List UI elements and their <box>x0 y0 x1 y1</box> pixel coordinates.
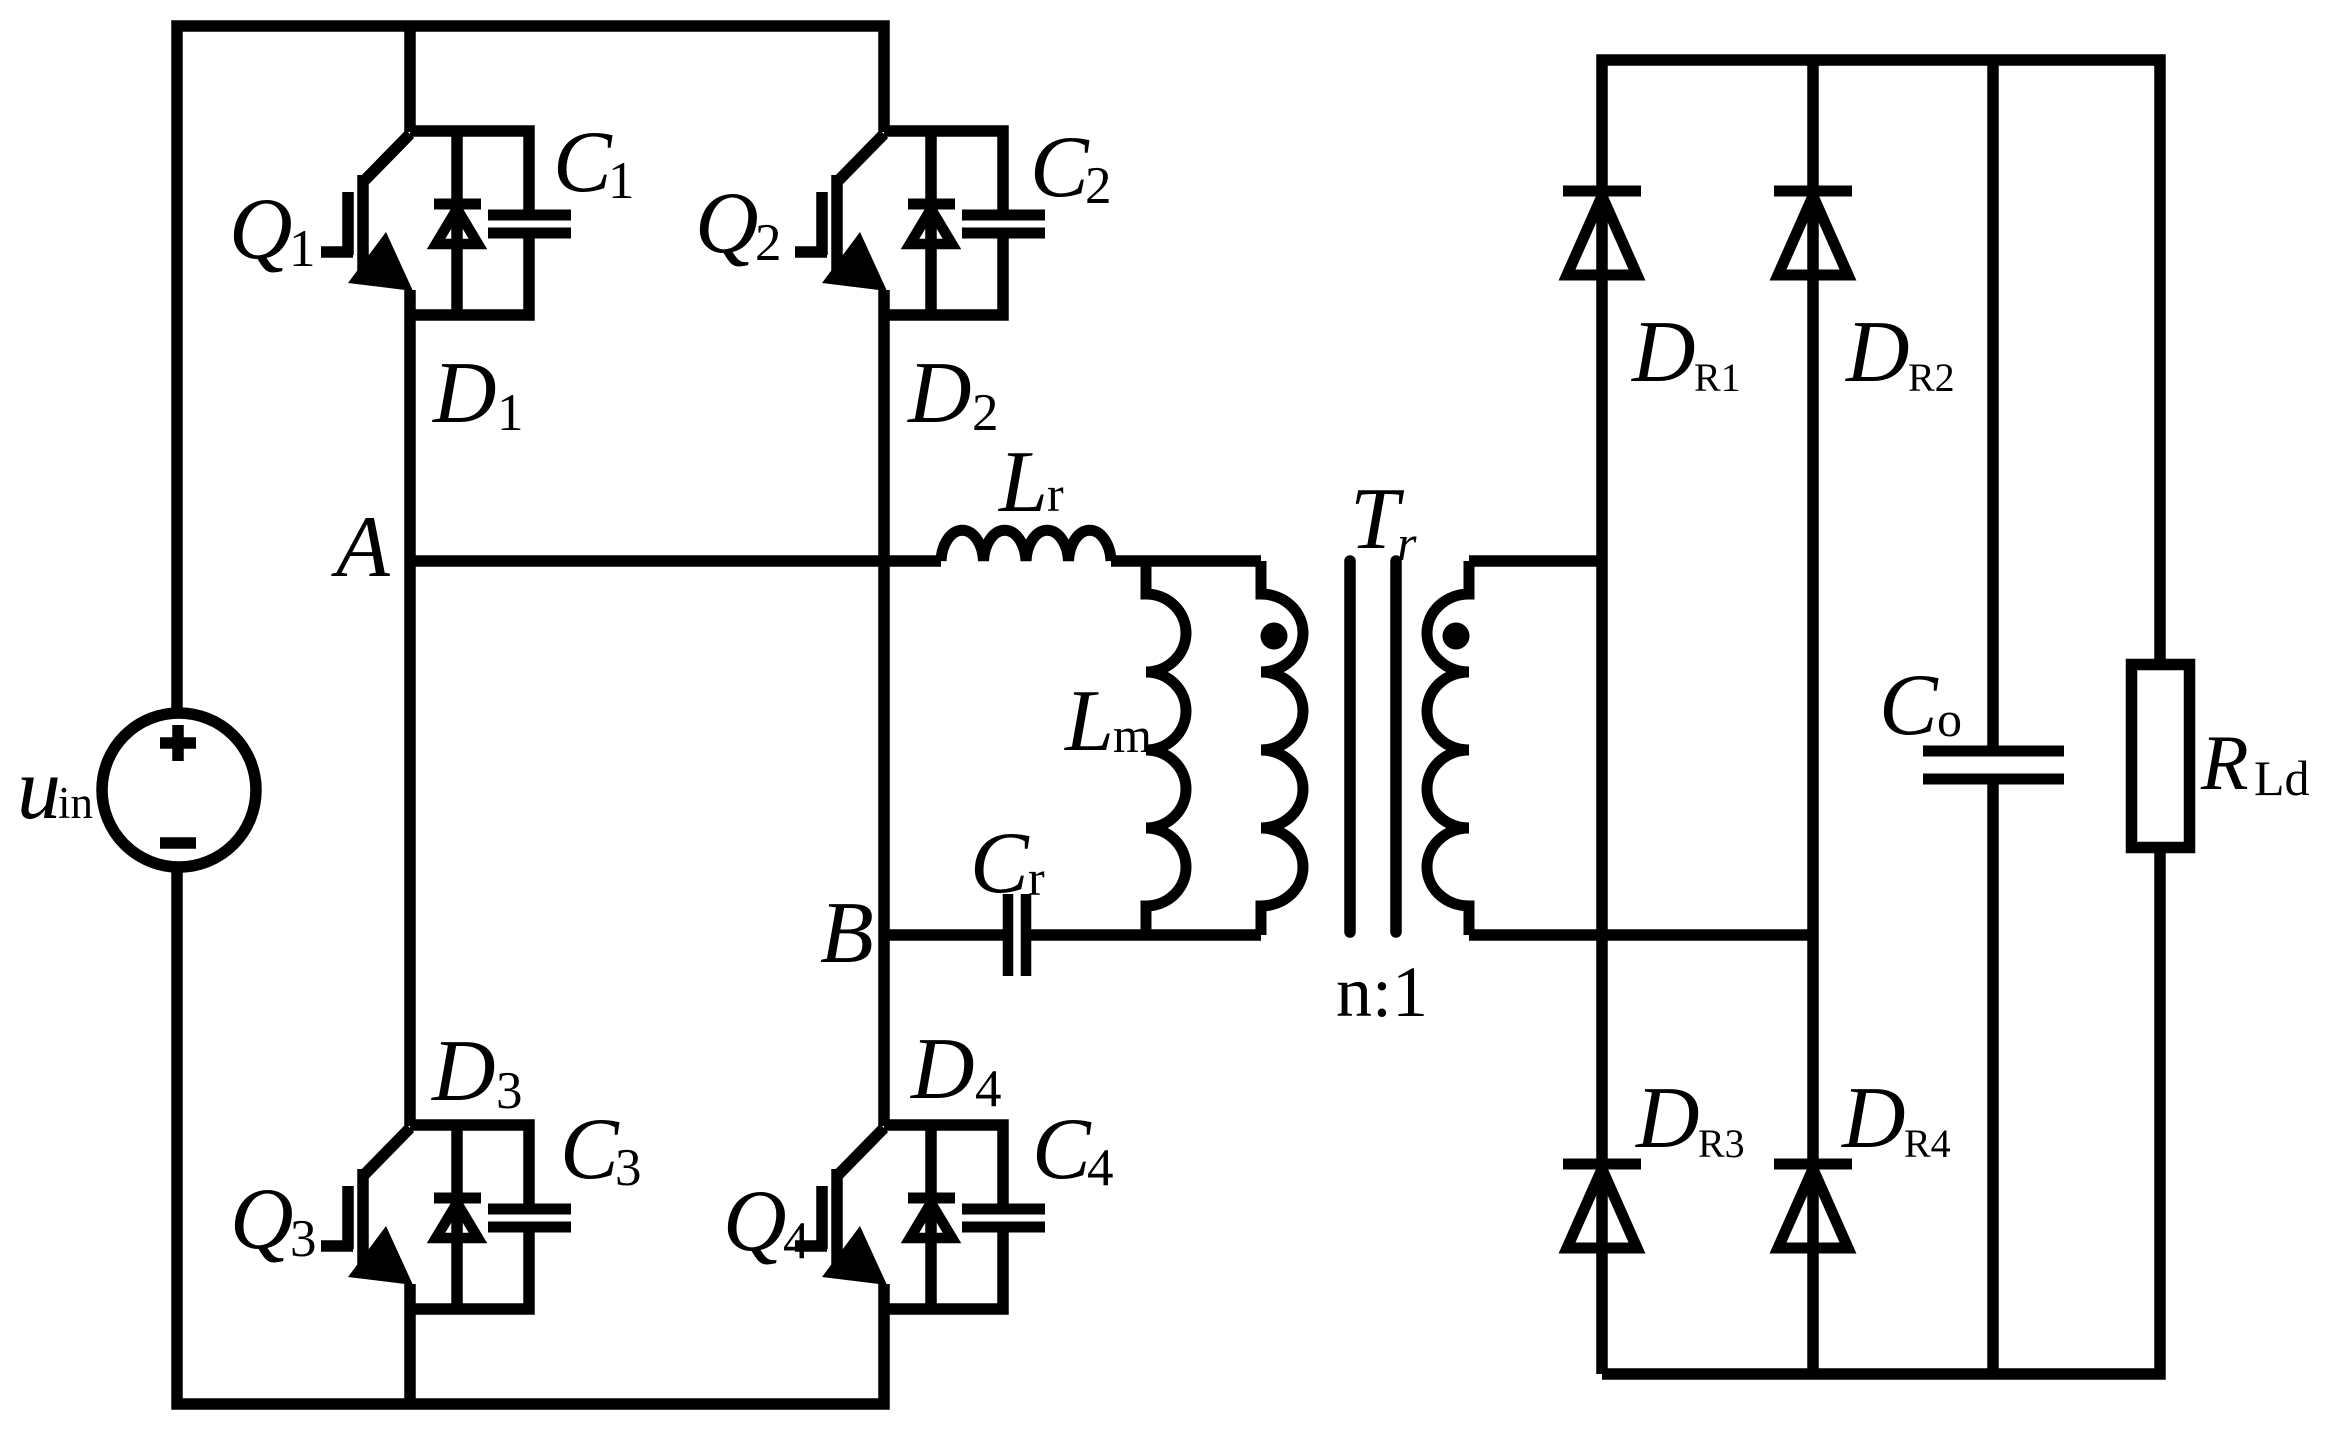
capacitor Co lower branch <box>1987 779 1999 1374</box>
transformer core left bar <box>1344 561 1356 932</box>
wire left rail upper + top wire + Q2 collector drop <box>177 26 884 713</box>
svg-text:D: D <box>431 1023 496 1120</box>
diode D1 triangle <box>436 209 478 244</box>
capacitor Cr left plate <box>1003 894 1014 976</box>
wire Cr to primary bottom <box>1030 929 1261 941</box>
wire right leg (node B) Q2 emitter to Q4 collector <box>878 290 890 1126</box>
capacitor C4 lower plate <box>962 1222 1045 1233</box>
transistor Q1 collector diagonal <box>364 134 410 181</box>
svg-text:2: 2 <box>755 214 782 272</box>
diode DR2 triangle <box>1778 196 1848 275</box>
voltage source minus sign <box>160 837 196 849</box>
transistor Q4 collector diagonal <box>838 1128 884 1175</box>
inductor Lr <box>941 530 1111 561</box>
svg-text:D: D <box>910 1021 975 1118</box>
transistor Q3 body bar <box>357 1169 369 1267</box>
capacitor C3 lower plate <box>488 1222 571 1233</box>
capacitor C2 upper plate <box>962 210 1045 221</box>
svg-text:2: 2 <box>972 384 999 442</box>
diode DR3 cathode bar <box>1563 1159 1641 1170</box>
svg-text:Ld: Ld <box>2254 750 2310 806</box>
capacitor C1 lower plate <box>488 228 571 239</box>
svg-text:Q: Q <box>723 1173 787 1270</box>
wire Lr to primary <box>1111 555 1261 567</box>
diode D1 cathode bar <box>434 199 481 210</box>
wire secondary bottom to rectifier <box>1469 929 1813 941</box>
svg-text:C: C <box>1030 119 1090 216</box>
wire Q1 collector leg <box>404 26 416 132</box>
transistor Q3 gate bar <box>342 1186 354 1249</box>
wire node A to Lr <box>410 555 941 567</box>
wire node B to Cr <box>884 929 1004 941</box>
svg-text:Q: Q <box>695 175 759 272</box>
wire Q4 cell top bar + capacitor upper branch <box>884 1125 1003 1209</box>
transistor Q1 body bar <box>357 175 369 273</box>
transistor Q3 collector diagonal <box>364 1128 410 1175</box>
svg-text:Q: Q <box>230 1171 294 1268</box>
svg-text:D: D <box>1845 304 1910 401</box>
transistor Q2 emitter arrow <box>822 232 887 291</box>
inductor Lm <box>1146 561 1186 935</box>
svg-text:R: R <box>2200 719 2249 806</box>
diode D4 triangle <box>910 1203 952 1238</box>
svg-text:4: 4 <box>1087 1139 1114 1197</box>
transistor Q3 emitter arrow <box>348 1226 413 1285</box>
svg-text:B: B <box>820 885 874 982</box>
svg-text:D: D <box>1635 1070 1700 1167</box>
svg-text:D: D <box>1841 1070 1906 1167</box>
svg-text:r: r <box>1047 466 1064 522</box>
svg-text:C: C <box>553 114 613 211</box>
wire DR2/DR4 leg <box>1807 60 1819 1374</box>
transformer secondary dot <box>1443 623 1470 650</box>
transformer primary winding <box>1261 561 1303 935</box>
diode D3 branch wire <box>451 1129 463 1309</box>
transistor Q3 gate lead <box>321 1240 353 1252</box>
wire Q4 cell bottom bar + capacitor lower branch <box>884 1227 1003 1309</box>
capacitor Cr right plate <box>1021 894 1032 976</box>
wire Q2 cell top bar + capacitor upper branch <box>884 131 1003 215</box>
capacitor C3 upper plate <box>488 1204 571 1215</box>
svg-text:in: in <box>58 778 93 828</box>
wire DR1/DR3 leg + top rail + RLd top lead <box>1602 60 2160 1374</box>
transformer core right bar <box>1390 561 1402 932</box>
voltage source u_in circle <box>102 713 256 867</box>
capacitor Co upper plate <box>1923 746 2064 757</box>
transformer primary dot <box>1261 623 1288 650</box>
svg-text:m: m <box>1113 707 1152 763</box>
diode D2 branch wire <box>925 135 937 315</box>
svg-text:n:1: n:1 <box>1336 952 1428 1032</box>
diode D1 branch wire <box>451 135 463 315</box>
svg-text:R4: R4 <box>1904 1121 1951 1166</box>
svg-text:C: C <box>970 815 1030 912</box>
svg-text:Q: Q <box>229 181 293 278</box>
wire bottom rail + RLd bottom lead <box>1602 848 2160 1374</box>
transistor Q4 body bar <box>831 1169 843 1267</box>
svg-text:1: 1 <box>608 152 635 210</box>
wire Q1 cell top bar + capacitor upper branch <box>410 131 529 215</box>
svg-text:1: 1 <box>289 220 316 278</box>
capacitor Co lower plate <box>1923 774 2064 785</box>
svg-text:C: C <box>560 1101 620 1198</box>
diode DR1 triangle <box>1567 196 1637 275</box>
diode DR1 cathode bar <box>1563 186 1641 197</box>
diode D4 cathode bar <box>908 1193 955 1204</box>
svg-text:C: C <box>1879 657 1939 754</box>
svg-text:2: 2 <box>1085 157 1112 215</box>
transistor Q4 gate lead <box>795 1240 827 1252</box>
transistor Q4 emitter arrow <box>822 1226 887 1285</box>
voltage source plus sign <box>160 725 196 761</box>
capacitor C2 lower plate <box>962 228 1045 239</box>
svg-text:3: 3 <box>615 1139 642 1197</box>
wire secondary top to rectifier <box>1469 555 1602 567</box>
diode DR4 cathode bar <box>1774 1159 1852 1170</box>
diode D3 cathode bar <box>434 1193 481 1204</box>
svg-text:4: 4 <box>975 1060 1002 1118</box>
transistor Q2 gate lead <box>795 246 827 258</box>
capacitor Co upper branch <box>1987 60 1999 751</box>
svg-text:R1: R1 <box>1694 355 1741 400</box>
svg-text:o: o <box>1937 691 1962 747</box>
transistor Q2 body bar <box>831 175 843 273</box>
diode D2 cathode bar <box>908 199 955 210</box>
svg-text:L: L <box>1063 673 1114 770</box>
diode D4 branch wire <box>925 1129 937 1309</box>
svg-text:D: D <box>907 345 972 442</box>
wire Q1 cell bottom bar + capacitor lower branch <box>410 233 529 315</box>
diode DR3 triangle <box>1567 1169 1637 1248</box>
wire left rail lower + bottom wire + Q4 emitter rise <box>177 867 884 1404</box>
transistor Q4 gate bar <box>816 1186 828 1249</box>
transistor Q2 gate bar <box>816 192 828 255</box>
svg-text:A: A <box>331 499 391 596</box>
wire Q3 emitter leg <box>404 1284 416 1404</box>
svg-text:R3: R3 <box>1698 1121 1745 1166</box>
transistor Q1 emitter arrow <box>348 232 413 291</box>
svg-text:4: 4 <box>783 1212 810 1270</box>
diode D2 triangle <box>910 209 952 244</box>
wire Q2 cell bottom bar + capacitor lower branch <box>884 233 1003 315</box>
svg-text:3: 3 <box>496 1062 523 1120</box>
svg-text:r: r <box>1397 515 1417 571</box>
diode DR4 triangle <box>1778 1169 1848 1248</box>
svg-text:r: r <box>1028 850 1045 906</box>
svg-text:3: 3 <box>290 1210 317 1268</box>
svg-text:L: L <box>997 434 1048 531</box>
wire Q3 cell top bar + capacitor upper branch <box>410 1125 529 1209</box>
svg-text:C: C <box>1032 1101 1092 1198</box>
svg-text:R2: R2 <box>1908 355 1955 400</box>
wire left leg (node A) Q1 emitter to Q3 collector <box>404 290 416 1126</box>
capacitor C1 upper plate <box>488 210 571 221</box>
diode DR2 cathode bar <box>1774 186 1852 197</box>
diode D3 triangle <box>436 1203 478 1238</box>
transistor Q2 collector diagonal <box>838 134 884 181</box>
svg-text:D: D <box>432 345 497 442</box>
transistor Q1 gate bar <box>342 192 354 255</box>
transistor Q1 gate lead <box>321 246 353 258</box>
transformer secondary winding <box>1427 561 1469 935</box>
capacitor C4 upper plate <box>962 1204 1045 1215</box>
resistor RLd box <box>2132 665 2190 848</box>
svg-text:1: 1 <box>497 384 524 442</box>
svg-text:u: u <box>17 741 61 838</box>
wire Q3 cell bottom bar + capacitor lower branch <box>410 1227 529 1309</box>
svg-text:D: D <box>1631 304 1696 401</box>
